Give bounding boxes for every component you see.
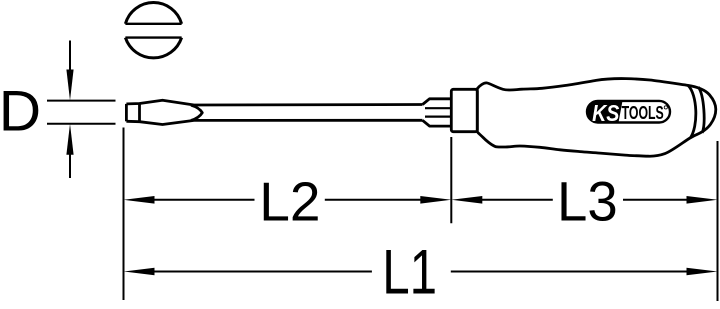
svg-text:TOOLS: TOOLS [622,104,664,124]
svg-text:L1: L1 [382,237,437,307]
svg-text:KS: KS [592,99,620,126]
svg-text:L3: L3 [557,170,618,233]
svg-text:L2: L2 [259,170,320,232]
svg-text:D: D [0,80,41,143]
